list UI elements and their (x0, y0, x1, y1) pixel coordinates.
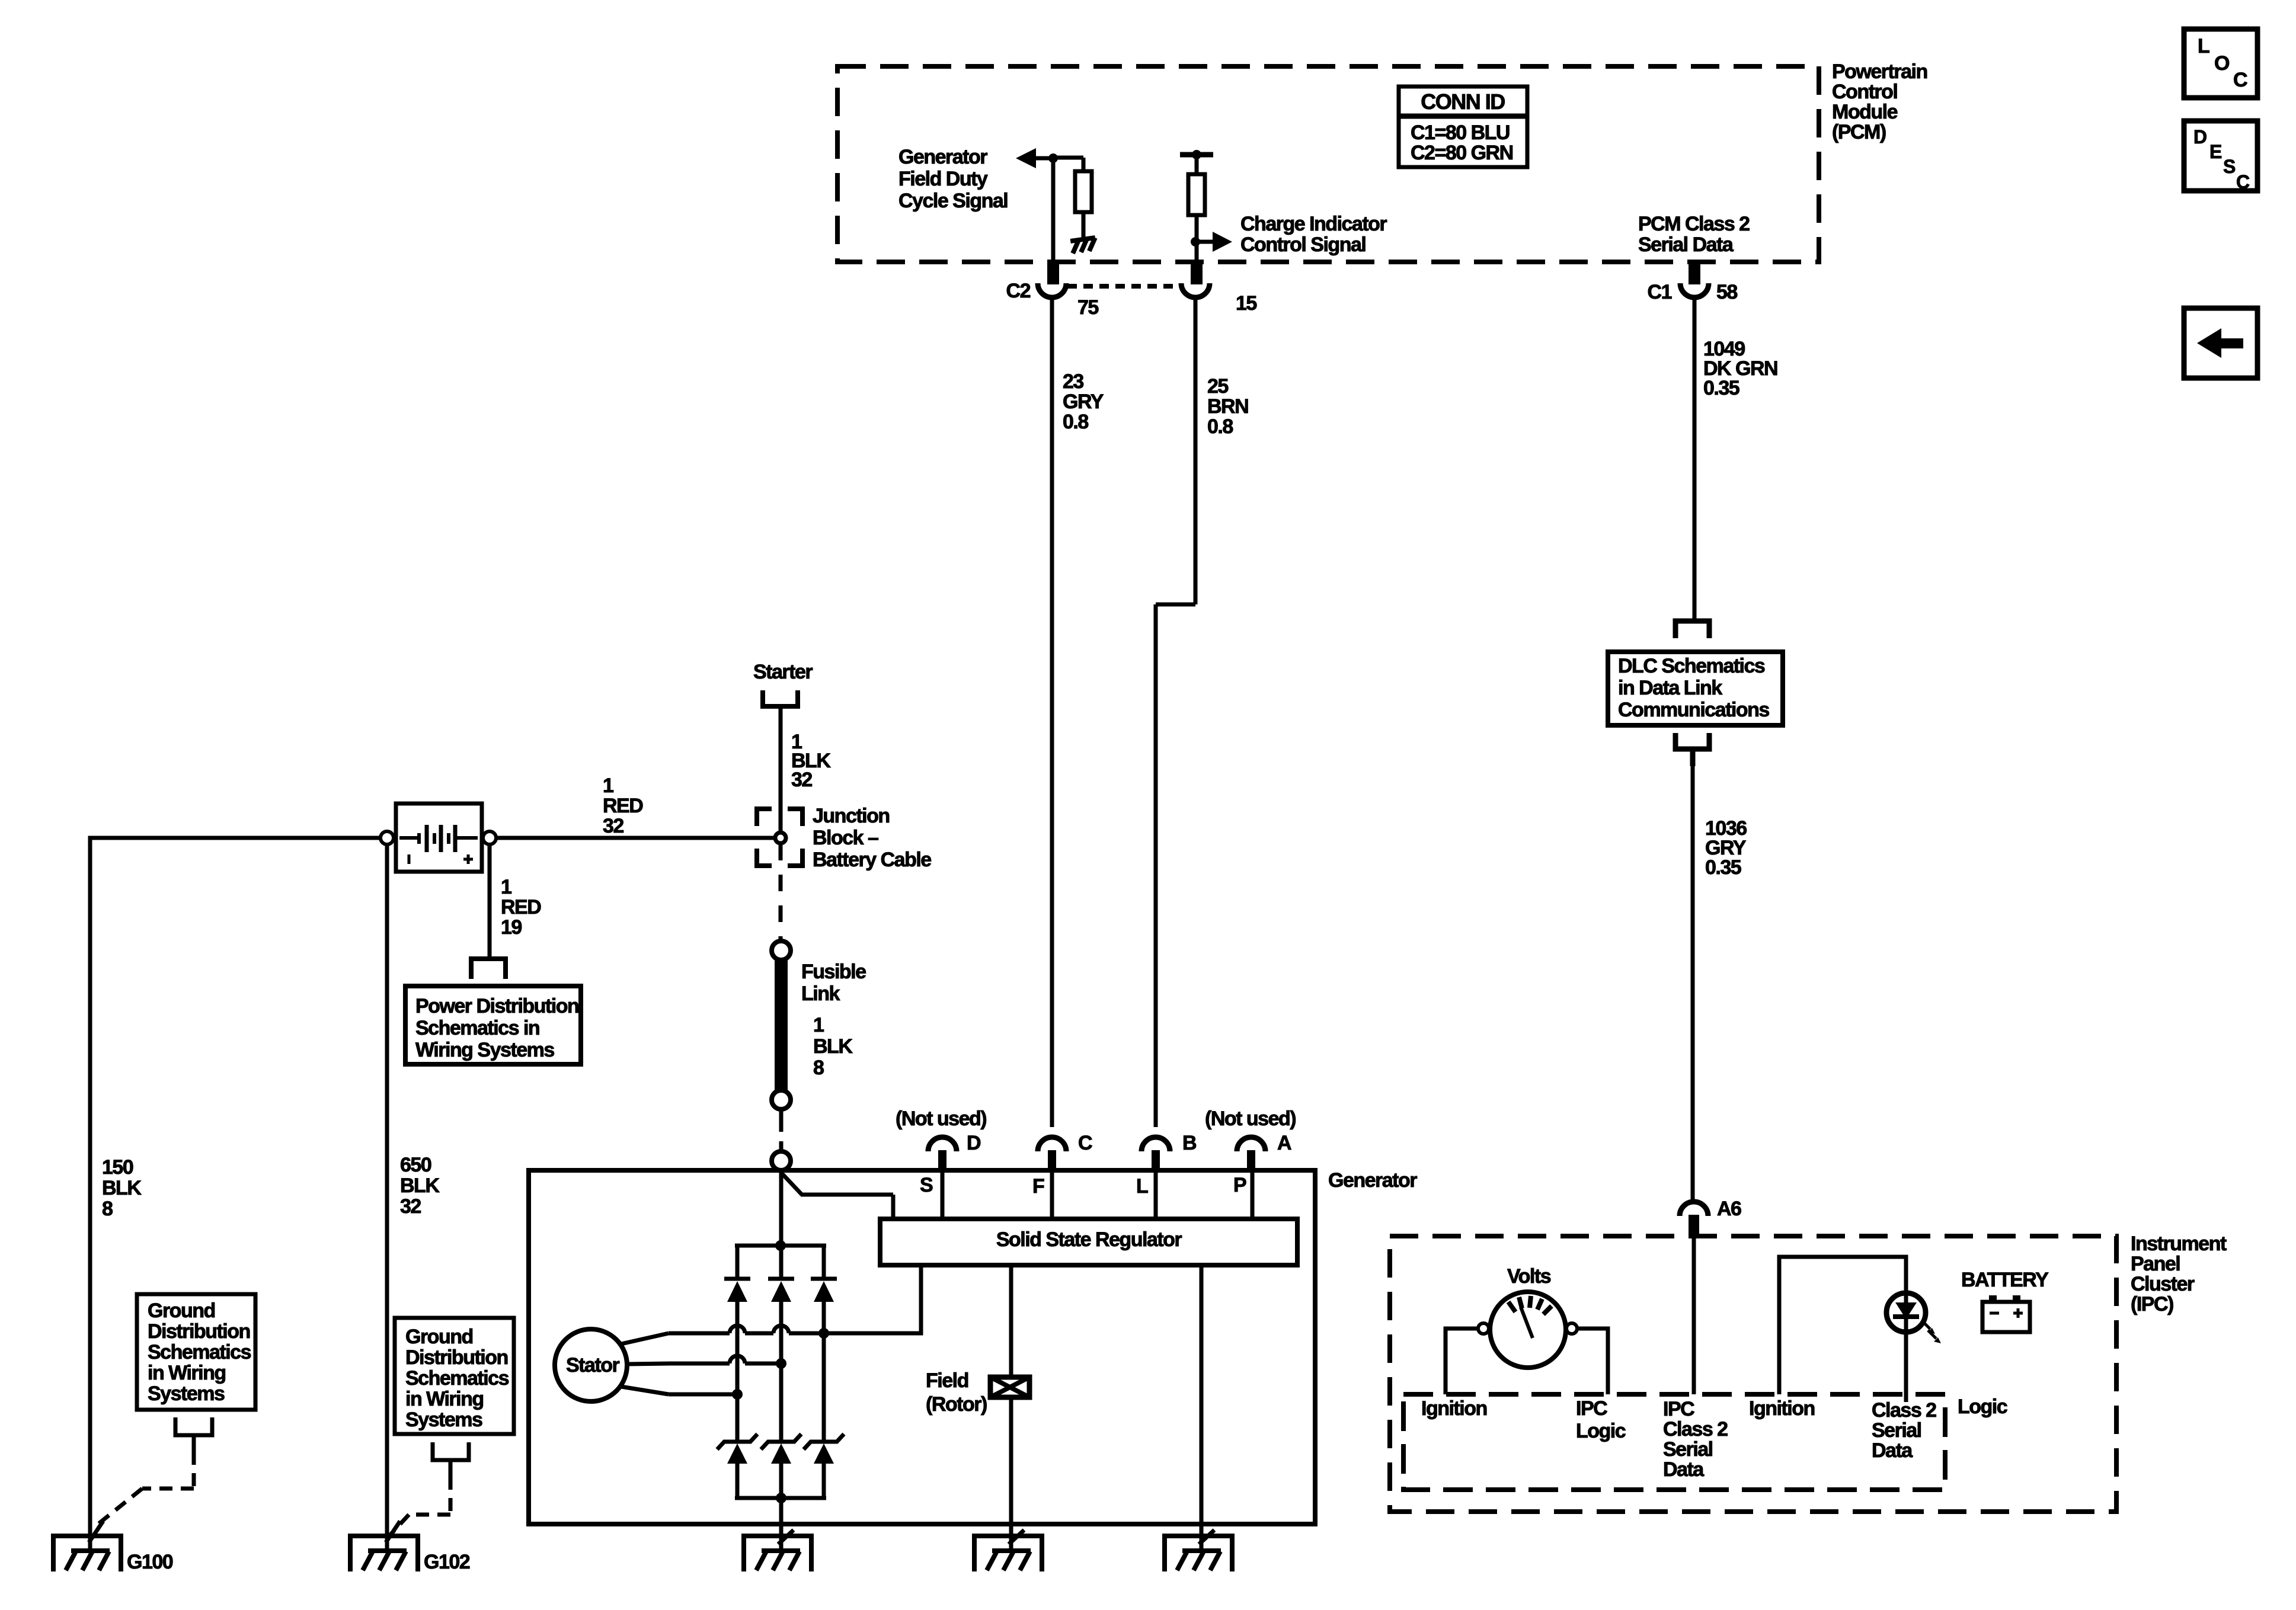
svg-text:C2=80 GRN: C2=80 GRN (1411, 142, 1513, 164)
resistor (PCM internal, charge indicator) (1188, 174, 1205, 215)
bridge bottom bar (735, 1496, 826, 1500)
svg-text:150: 150 (102, 1156, 133, 1179)
arrow (Charge Indicator Control Signal, pointing right) (1195, 240, 1214, 244)
svg-text:(Not used): (Not used) (896, 1108, 986, 1130)
svg-text:GRY: GRY (1063, 391, 1104, 413)
connector C2 pin 75 (1047, 262, 1059, 284)
svg-text:Data: Data (1872, 1439, 1913, 1462)
wire S sense (circle to regulator) (782, 1174, 802, 1195)
ground (PCM internal) (1070, 238, 1097, 254)
svg-text:in Data Link: in Data Link (1618, 677, 1722, 699)
wire gauge to IPC Logic (1577, 1329, 1608, 1394)
svg-text:1: 1 (501, 876, 511, 898)
wire bridge to ground (779, 1498, 784, 1551)
svg-text:Starter: Starter (753, 661, 813, 683)
svg-text:CONN ID: CONN ID (1421, 89, 1505, 114)
svg-text:32: 32 (603, 815, 623, 837)
svg-text:8: 8 (813, 1057, 824, 1079)
bracket to Power Distribution (469, 956, 508, 961)
node: generator B+ junction circle (772, 1151, 791, 1170)
generator box (529, 1170, 1315, 1524)
svg-text:Power Distribution: Power Distribution (415, 995, 578, 1017)
DESC box (2184, 121, 2257, 191)
battery B+ (396, 804, 482, 872)
node: dot at charge indicator branch (1191, 237, 1200, 247)
svg-text:P: P (1233, 1174, 1246, 1196)
svg-text:Generator: Generator (1328, 1169, 1417, 1192)
svg-text:S: S (2223, 156, 2236, 177)
svg-text:Volts: Volts (1507, 1265, 1551, 1288)
wire 1049 DK GRN 0.35 (C1-58 to DLC) (1693, 297, 1697, 619)
svg-text:Fusible: Fusible (801, 961, 866, 983)
wire ignition to LED branch (1779, 1257, 1906, 1394)
svg-text:Instrument: Instrument (2131, 1233, 2227, 1255)
svg-text:Field: Field (926, 1369, 968, 1392)
connector A6 (1680, 1202, 1708, 1216)
Power Distribution Schematics box (405, 986, 581, 1064)
starter bracket (763, 690, 798, 706)
svg-text:C1=80 BLU: C1=80 BLU (1411, 121, 1510, 144)
svg-text:RED: RED (501, 896, 541, 918)
ground G102 (350, 1536, 418, 1571)
wire 23 GRY 0.8 (C2-75 to generator F/C) (1050, 297, 1054, 1127)
svg-text:Battery Cable: Battery Cable (813, 849, 931, 871)
stator lead 1 (621, 1333, 669, 1344)
svg-text:Link: Link (801, 982, 840, 1005)
wire junction circle to bridge (779, 1172, 784, 1246)
svg-text:E: E (2209, 141, 2222, 162)
battery icon (1989, 1295, 1997, 1302)
dashed link to G102 (449, 1477, 453, 1515)
svg-text:Ignition: Ignition (1749, 1397, 1815, 1420)
svg-text:Junction: Junction (813, 805, 890, 827)
wire A6 to IPC logic (1692, 1237, 1696, 1394)
junction block corner brackets (757, 809, 772, 826)
svg-text:PCM Class 2: PCM Class 2 (1638, 213, 1750, 235)
svg-text:0.8: 0.8 (1207, 415, 1233, 438)
svg-text:in Wiring: in Wiring (148, 1362, 226, 1384)
svg-text:Module: Module (1832, 101, 1898, 123)
arrow (Generator Field Duty Cycle Signal, pointing left) (1016, 148, 1036, 168)
svg-text:(IPC): (IPC) (2131, 1293, 2173, 1315)
svg-text:C: C (1078, 1132, 1092, 1154)
wire: branch to resistor (1053, 156, 1083, 160)
wire regulator right to ground (1200, 1265, 1204, 1551)
wire 1 RED 19 to power distribution (488, 845, 492, 956)
svg-text:Serial: Serial (1663, 1438, 1713, 1461)
svg-text:0.8: 0.8 (1063, 411, 1088, 433)
svg-text:8: 8 (102, 1198, 113, 1220)
node: junction block splice (775, 833, 786, 843)
svg-text:Cycle Signal: Cycle Signal (898, 190, 1008, 212)
svg-text:Schematics: Schematics (148, 1341, 251, 1363)
svg-text:75: 75 (1077, 296, 1098, 319)
svg-text:G100: G100 (127, 1551, 173, 1573)
Ground Distribution box (left) (137, 1294, 255, 1410)
wire 1036 GRY 0.35 (DLC to IPC A6) (1691, 766, 1695, 1202)
svg-text:BLK: BLK (102, 1177, 142, 1199)
stator (555, 1329, 627, 1401)
svg-text:0.35: 0.35 (1703, 377, 1739, 399)
bridge top bar (735, 1244, 826, 1248)
connector C1 pin 58 (1689, 262, 1700, 284)
svg-text:D: D (967, 1132, 981, 1154)
DLC Schematics box (1608, 652, 1783, 725)
back arrow box (2184, 308, 2257, 378)
connector pin A (generator) (1237, 1137, 1265, 1151)
LED light arrows (1922, 1321, 1930, 1329)
svg-text:L: L (2198, 35, 2209, 57)
svg-text:Distribution: Distribution (405, 1346, 508, 1369)
ground (generator right) (1165, 1536, 1232, 1571)
svg-text:DLC Schematics: DLC Schematics (1618, 655, 1765, 677)
wire regulator to field (1009, 1265, 1013, 1378)
svg-text:Panel: Panel (2131, 1253, 2180, 1275)
CONN ID table (1399, 87, 1527, 167)
connector pin C (generator) (1038, 1137, 1066, 1151)
svg-text:Control Signal: Control Signal (1240, 233, 1366, 256)
svg-text:Charge Indicator: Charge Indicator (1240, 213, 1387, 235)
svg-text:Wiring Systems: Wiring Systems (415, 1039, 554, 1061)
svg-text:Class 2: Class 2 (1663, 1418, 1728, 1441)
svg-text:Powertrain: Powertrain (1832, 60, 1927, 83)
svg-text:0.35: 0.35 (1705, 856, 1741, 879)
svg-text:BATTERY: BATTERY (1961, 1269, 2049, 1291)
Ground Distribution box (right) (395, 1318, 514, 1434)
wire: C2 pin 75 vertical inside PCM (1051, 158, 1056, 262)
wire gauge to Ignition (1446, 1329, 1478, 1394)
stator lead 2 (627, 1363, 670, 1364)
svg-text:(Rotor): (Rotor) (926, 1393, 987, 1416)
svg-text:O: O (2214, 52, 2230, 75)
PCM dashed box (837, 66, 1819, 262)
svg-text:C2: C2 (1006, 280, 1031, 302)
svg-text:Schematics in: Schematics in (415, 1017, 539, 1039)
svg-text:Block –: Block – (813, 827, 878, 849)
ground (generator field) (974, 1536, 1042, 1571)
wire 650 BLK 32 to G102 (385, 845, 389, 1551)
svg-text:650: 650 (400, 1154, 431, 1176)
svg-text:A6: A6 (1717, 1198, 1741, 1220)
svg-text:L: L (1136, 1175, 1148, 1198)
svg-text:F: F (1032, 1175, 1044, 1198)
svg-text:Ignition: Ignition (1421, 1397, 1487, 1420)
svg-text:C: C (2236, 171, 2250, 193)
dashed wire fusible link to generator (779, 1110, 784, 1150)
svg-text:32: 32 (400, 1195, 421, 1218)
svg-text:Logic: Logic (1958, 1395, 2007, 1418)
connector pin 15 (1191, 262, 1203, 284)
bracket above DLC box (1675, 621, 1709, 638)
wires pins to regulator (941, 1173, 945, 1219)
wire battery to G100 (150 BLK 8) (90, 838, 380, 1551)
svg-text:Cluster: Cluster (2131, 1273, 2195, 1295)
connector pin D (generator) (928, 1137, 957, 1151)
svg-text:BRN: BRN (1207, 395, 1248, 418)
svg-text:1: 1 (813, 1014, 824, 1036)
IPC dashed box (1390, 1236, 2116, 1512)
svg-text:Ground: Ground (405, 1326, 473, 1348)
IPC logic inner dashed box (1403, 1394, 1945, 1490)
fusible link (772, 941, 791, 960)
svg-text:Control: Control (1832, 81, 1897, 103)
node: dot at T-bar (1192, 150, 1201, 159)
svg-text:IPC: IPC (1576, 1397, 1607, 1420)
connector pin B (generator) (1141, 1137, 1170, 1151)
solid state regulator box (880, 1219, 1297, 1265)
LED indicator (1886, 1293, 1926, 1332)
wire battery to junction block (1 RED 32) (497, 836, 776, 840)
node: junction dot on C2 wire (1048, 153, 1058, 163)
diode column x=1390 (822, 1246, 826, 1280)
svg-text:Communications: Communications (1618, 699, 1769, 721)
dashed link to G100 (192, 1452, 196, 1489)
svg-text:Ground: Ground (148, 1299, 215, 1322)
wire 25 BRN 0.8 (15 to generator L/B) (1194, 297, 1198, 604)
svg-text:C: C (2233, 69, 2247, 91)
bracket below left box (175, 1417, 212, 1435)
svg-text:32: 32 (791, 769, 812, 791)
svg-text:15: 15 (1236, 292, 1256, 315)
bracket below right box (433, 1442, 469, 1460)
svg-text:C1: C1 (1648, 281, 1672, 303)
svg-text:Serial: Serial (1872, 1419, 1921, 1442)
svg-text:in Wiring: in Wiring (405, 1388, 484, 1410)
dashed connector link between 75 and 15 (1067, 284, 1182, 289)
svg-text:Solid State Regulator: Solid State Regulator (996, 1228, 1182, 1251)
svg-text:Stator: Stator (566, 1354, 620, 1377)
svg-text:Logic: Logic (1576, 1420, 1626, 1442)
svg-text:Schematics: Schematics (405, 1367, 509, 1390)
svg-text:(PCM): (PCM) (1832, 121, 1886, 143)
svg-text:BLK: BLK (400, 1174, 440, 1197)
wire field to ground (1009, 1397, 1013, 1551)
ground (generator bridge) (744, 1536, 811, 1571)
svg-text:B: B (1182, 1132, 1197, 1154)
wire regulator to stator sense (826, 1265, 921, 1333)
ground G100 (53, 1536, 121, 1571)
svg-text:Systems: Systems (148, 1382, 225, 1405)
stator lead 3 (621, 1387, 669, 1394)
svg-text:Data: Data (1663, 1458, 1705, 1481)
svg-text:RED: RED (603, 795, 643, 817)
diode column x=1244 (736, 1246, 740, 1280)
svg-text:G102: G102 (424, 1551, 470, 1573)
svg-text:19: 19 (501, 916, 522, 939)
svg-text:S: S (920, 1174, 933, 1196)
svg-text:Serial Data: Serial Data (1638, 233, 1734, 256)
svg-text:D: D (2193, 126, 2207, 148)
svg-text:Class 2: Class 2 (1872, 1399, 1936, 1422)
bracket below DLC box (1675, 733, 1709, 749)
svg-text:Field Duty: Field Duty (898, 168, 988, 190)
svg-text:BLK: BLK (813, 1035, 853, 1058)
gauge terminals (1478, 1323, 1489, 1334)
svg-text:IPC: IPC (1663, 1398, 1694, 1420)
dashed battery cable below junction (779, 844, 783, 941)
svg-text:(Not used): (Not used) (1205, 1108, 1296, 1130)
wire LED to Class 2 Serial Data (1904, 1332, 1908, 1402)
field (rotor) symbol (990, 1377, 1029, 1397)
svg-text:Generator: Generator (898, 146, 987, 168)
svg-text:58: 58 (1716, 281, 1737, 303)
wire: pin 15 internal T-bar (1180, 152, 1213, 158)
svg-text:Systems: Systems (405, 1409, 482, 1431)
svg-text:1: 1 (603, 774, 613, 797)
svg-text:A: A (1277, 1132, 1291, 1154)
LOC box (2184, 29, 2257, 98)
svg-text:25: 25 (1207, 375, 1228, 398)
svg-text:Distribution: Distribution (148, 1320, 250, 1343)
wire starter to junction block (1 BLK 32) (779, 706, 783, 833)
svg-text:23: 23 (1063, 370, 1083, 393)
diode column x=1318 (779, 1246, 784, 1280)
battery terminal rings (380, 831, 394, 844)
resistor (PCM internal, field duty) (1075, 171, 1092, 212)
